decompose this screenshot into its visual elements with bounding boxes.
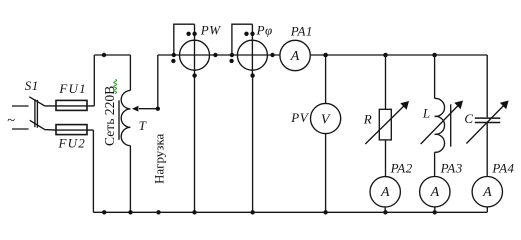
svg-text:PW: PW <box>200 23 221 38</box>
svg-text:PA3: PA3 <box>440 161 463 176</box>
svg-text:PV: PV <box>290 110 309 125</box>
capacitor C top plate <box>475 117 501 119</box>
switch S1 blade bottom <box>30 120 56 130</box>
node PA3 bottom junction <box>433 210 437 214</box>
PW polarity dot top <box>186 32 190 36</box>
svg-text:T: T <box>139 118 147 133</box>
wire measurement bus left <box>158 54 280 56</box>
wire PW voltage lead to bottom bus <box>194 76 196 213</box>
node transformer bottom junction <box>128 210 132 214</box>
wire Pphi voltage lead to bottom bus <box>252 76 254 213</box>
PW polarity dot left <box>171 59 175 63</box>
capacitor C variability arrow <box>466 105 504 144</box>
ammeter PA4 circle <box>472 177 502 207</box>
capacitor C bottom plate <box>475 122 501 124</box>
fuse FU1 through wire <box>56 105 94 107</box>
wattmeter PW current loop <box>174 24 195 55</box>
node mains top terminal <box>102 53 106 57</box>
wire PV branch upper <box>325 55 327 103</box>
fuse FU2 through wire <box>56 129 93 131</box>
wire FU1 riser to top bus <box>93 55 95 106</box>
svg-text:S1: S1 <box>25 78 39 93</box>
wire PA4 to bottom bus corner <box>486 207 488 212</box>
svg-text:PA4: PA4 <box>491 161 514 176</box>
wire PA2 to bottom bus <box>384 207 386 212</box>
node Pphi bottom terminal <box>250 73 254 77</box>
wire top mains bus <box>94 54 130 56</box>
node PW bottom bus junction <box>192 210 196 214</box>
Pphi current loop <box>232 24 253 55</box>
AC source terminal stub bottom <box>12 128 29 130</box>
node PW right terminal <box>213 53 217 57</box>
wire R branch upper <box>385 55 387 109</box>
switch S1 blade top <box>29 97 56 106</box>
svg-text:A: A <box>430 185 440 200</box>
node mains bottom terminal <box>102 210 106 214</box>
transformer wiper arrow <box>139 108 158 110</box>
node PA2 bottom junction <box>383 210 387 214</box>
wire bottom bus <box>93 211 487 213</box>
wattmeter PW circle <box>180 40 210 70</box>
node Pphi top terminal <box>250 32 254 36</box>
svg-text:~: ~ <box>7 113 15 129</box>
phase meter Pphi circle <box>237 40 267 70</box>
wire measurement bus right <box>310 54 487 56</box>
node PW bottom terminal <box>192 73 196 77</box>
node Pphi right terminal <box>270 53 274 57</box>
svg-text:PA1: PA1 <box>290 24 313 39</box>
wire L to PA3 <box>434 152 436 176</box>
inductor L winding arcs <box>435 98 445 152</box>
wire PA3 to bottom bus <box>434 207 436 212</box>
fuse FU1 body <box>56 100 87 110</box>
transformer T winding arcs <box>121 91 130 146</box>
wire L branch upper <box>434 55 436 99</box>
ammeter PA2 circle <box>370 177 400 207</box>
switch S1 mechanical link bars <box>34 99 36 127</box>
wire C branch upper <box>486 55 488 117</box>
svg-text:A: A <box>380 185 390 200</box>
node PW top terminal <box>192 32 196 36</box>
transformer T core line <box>118 100 120 140</box>
svg-text:Сеть 220В: Сеть 220В <box>102 86 117 146</box>
ammeter PA1 circle <box>280 40 310 70</box>
node PV bottom junction <box>323 210 327 214</box>
svg-text:V: V <box>321 112 331 127</box>
Pphi polarity dot left <box>229 59 233 63</box>
fuse FU2 body <box>56 125 87 135</box>
resistor R body <box>379 109 391 140</box>
svg-text:Pφ: Pφ <box>256 23 273 38</box>
svg-text:L: L <box>422 105 431 120</box>
svg-text:FU2: FU2 <box>58 136 86 151</box>
wire wiper riser <box>157 55 159 109</box>
transformer T winding top lead <box>129 55 131 91</box>
svg-text:FU1: FU1 <box>58 81 86 96</box>
svg-text:Нагрузка: Нагрузка <box>152 133 167 184</box>
Pphi vertical coil line <box>251 24 253 75</box>
svg-text:A: A <box>290 49 300 64</box>
svg-text:R: R <box>363 111 372 126</box>
node R tap <box>383 53 388 58</box>
node Pphi left terminal <box>230 53 234 57</box>
spellcheck squiggle <box>114 80 117 94</box>
Pphi polarity dot top <box>244 32 248 36</box>
node wiper junction <box>156 107 160 111</box>
inductor L core line <box>450 104 452 146</box>
inductor L variability arrow <box>421 105 459 144</box>
voltmeter PV circle <box>311 103 341 133</box>
node PW left terminal <box>172 53 176 57</box>
wire PV branch lower <box>325 134 327 213</box>
wire FU2 dropper to bottom bus <box>92 130 94 212</box>
AC source terminal stub top <box>12 105 29 107</box>
svg-text:PA2: PA2 <box>390 161 413 176</box>
node Pphi bottom bus junction <box>250 210 254 214</box>
resistor R variability arrow <box>365 105 404 144</box>
ammeter PA3 circle <box>420 177 450 207</box>
wire R to PA2 <box>385 140 387 177</box>
transformer T winding bottom lead <box>129 146 131 213</box>
node load bottom terminal <box>156 210 160 214</box>
wattmeter PW vertical coil line <box>194 24 196 75</box>
node L tap <box>432 53 437 58</box>
svg-text:C: C <box>464 111 473 126</box>
node PV tap <box>323 53 328 58</box>
wire C to PA4 <box>486 123 488 176</box>
svg-text:A: A <box>482 185 492 200</box>
